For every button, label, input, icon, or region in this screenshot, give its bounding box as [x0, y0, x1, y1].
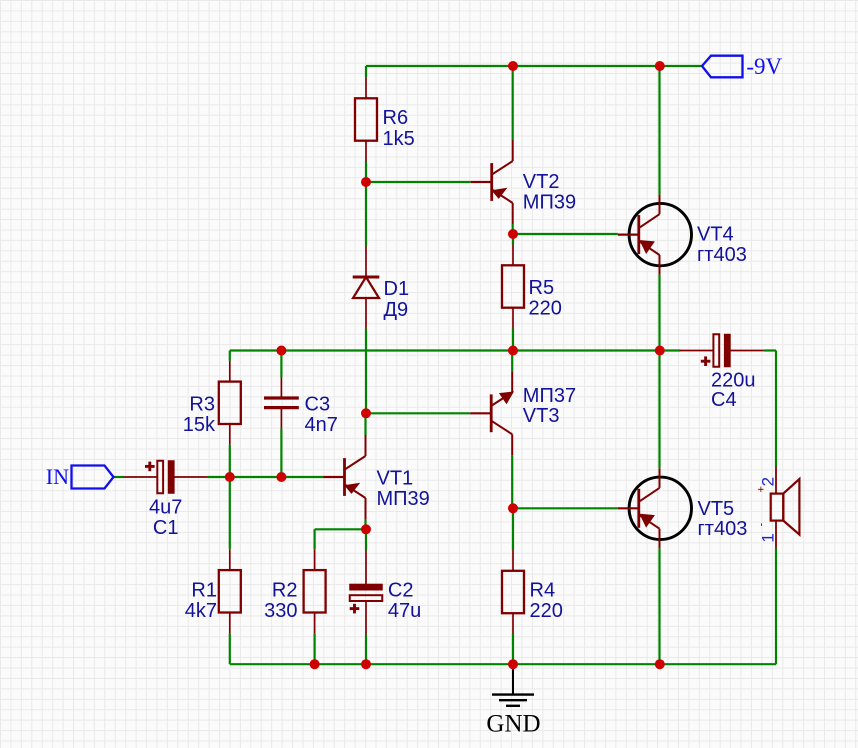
- svg-text:220: 220: [529, 298, 562, 320]
- svg-text:4u7: 4u7: [149, 496, 182, 518]
- svg-text:гт403: гт403: [698, 518, 748, 540]
- svg-text:МП37: МП37: [523, 385, 576, 407]
- svg-text:R1: R1: [191, 579, 217, 601]
- svg-text:МП39: МП39: [523, 192, 576, 214]
- svg-text:-: -: [756, 523, 768, 527]
- svg-text:R2: R2: [272, 579, 298, 601]
- svg-text:R4: R4: [530, 579, 556, 601]
- svg-text:VT4: VT4: [697, 224, 734, 246]
- svg-text:4k7: 4k7: [185, 600, 217, 622]
- svg-text:-9V: -9V: [746, 54, 782, 79]
- svg-text:МП39: МП39: [377, 488, 430, 510]
- svg-text:R5: R5: [529, 277, 555, 299]
- svg-text:VT3: VT3: [523, 405, 560, 427]
- svg-text:15k: 15k: [183, 414, 216, 436]
- svg-text:1k5: 1k5: [383, 128, 415, 150]
- svg-text:C3: C3: [305, 393, 331, 415]
- svg-text:гт403: гт403: [697, 244, 747, 266]
- svg-text:C2: C2: [388, 579, 414, 601]
- svg-text:220: 220: [530, 600, 563, 622]
- svg-text:IN: IN: [46, 464, 69, 489]
- svg-text:330: 330: [264, 600, 297, 622]
- svg-text:1: 1: [758, 533, 777, 542]
- svg-text:VT2: VT2: [523, 171, 560, 193]
- svg-text:Д9: Д9: [384, 299, 409, 321]
- svg-text:R6: R6: [383, 107, 409, 129]
- svg-text:D1: D1: [384, 278, 410, 300]
- svg-text:+: +: [756, 486, 768, 492]
- svg-text:C4: C4: [711, 389, 737, 411]
- svg-text:2: 2: [759, 477, 778, 486]
- svg-text:VT1: VT1: [377, 468, 414, 490]
- svg-text:VT5: VT5: [698, 498, 735, 520]
- svg-text:4n7: 4n7: [305, 414, 338, 436]
- svg-text:R3: R3: [189, 393, 215, 415]
- svg-text:GND: GND: [486, 711, 540, 738]
- svg-text:47u: 47u: [388, 600, 421, 622]
- svg-text:C1: C1: [153, 517, 179, 539]
